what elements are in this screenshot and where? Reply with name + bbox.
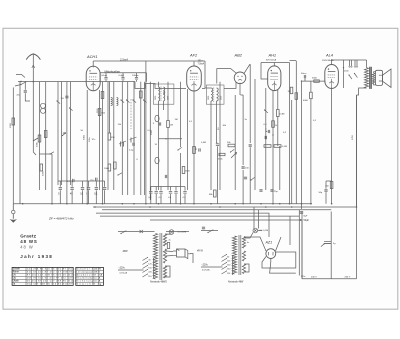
coil IFT2 primary [211, 88, 213, 101]
capacitor AF2 [199, 148, 200, 151]
svg-text:5000: 5000 [43, 170, 45, 176]
wire [71, 190, 73, 203]
wire [241, 94, 244, 96]
wire [150, 194, 152, 204]
wire [304, 78, 306, 81]
wire [184, 187, 186, 191]
switch wave [127, 100, 130, 103]
wire avc link [217, 142, 218, 144]
coil L1b [41, 108, 46, 113]
junction ah1 [272, 134, 273, 135]
wire [144, 82, 146, 195]
wire stub a1 [349, 60, 351, 67]
resistor 1000 [108, 164, 111, 171]
wire ACH1 anode [92, 61, 94, 67]
resistor AF2 cathode [193, 147, 196, 154]
selector tap 40 [143, 258, 148, 261]
wire [167, 82, 169, 121]
capacitor 0,4µF [121, 78, 124, 80]
coil transformer2 primary [232, 236, 236, 274]
resistor 0,3M [277, 110, 280, 117]
switch wave [144, 100, 147, 103]
svg-text:Gewicht: Gewicht [76, 283, 93, 286]
wire [136, 73, 138, 77]
switch wave [133, 100, 136, 103]
wire [12, 87, 14, 203]
svg-text:48 WS: 48 WS [20, 239, 37, 244]
wire [149, 82, 151, 200]
wire AZ1 left [244, 237, 266, 251]
resistor psu1 [167, 243, 169, 249]
coil osc 2 [155, 157, 159, 164]
resistor 150 [330, 182, 333, 189]
wire [343, 60, 345, 88]
wire [210, 101, 212, 190]
svg-text:Schalter 1: Schalter 1 [76, 268, 93, 271]
transformer core [370, 67, 371, 89]
junction osc [165, 138, 166, 139]
resistor 0,1M [274, 145, 281, 148]
svg-text:2000: 2000 [168, 96, 170, 100]
switch band c [70, 108, 73, 111]
switch [118, 173, 122, 175]
wire [88, 181, 90, 187]
svg-text:Netztrafo 48WS: Netztrafo 48WS [150, 281, 167, 284]
wire mittel line [100, 72, 147, 74]
wire heater [118, 231, 155, 233]
resistor 0,5M [264, 145, 271, 148]
tube AH1 [268, 66, 281, 91]
wire AF2 pin [187, 89, 189, 190]
wire [133, 82, 135, 195]
wire [59, 190, 61, 203]
svg-text:AZ1: AZ1 [265, 240, 273, 244]
junction bus2 [265, 206, 267, 208]
wire [82, 190, 84, 203]
junction 50uF [300, 219, 302, 221]
svg-text:48 W: 48 W [197, 250, 203, 253]
wire [158, 82, 160, 87]
junction bus2 [94, 206, 96, 208]
wire AZ1 out [270, 259, 296, 274]
wire [254, 79, 256, 190]
wire sec bot [374, 84, 376, 85]
wire stub b2 [356, 60, 358, 67]
wire [184, 194, 186, 204]
tube AZ1 [266, 249, 276, 259]
trimmer cap [130, 137, 137, 140]
junction bus [102, 203, 104, 205]
wire psu1 rect right [190, 254, 193, 264]
capacitor 25µ [270, 190, 273, 191]
transformer1 core [160, 233, 162, 280]
svg-text:ZF = 468/472 kHz: ZF = 468/472 kHz [48, 217, 74, 221]
wire AL4 grid [302, 80, 326, 82]
wire [167, 128, 169, 191]
capacitor 0 [87, 188, 90, 190]
wire [104, 181, 106, 187]
svg-text:8µF: 8µF [304, 216, 308, 218]
wire [45, 82, 47, 190]
resistor 1000 [12, 118, 15, 125]
resistor 1M [167, 121, 170, 128]
wire [127, 82, 129, 195]
wire heater2 [166, 231, 189, 233]
wire lamp [165, 233, 172, 235]
svg-text:92V/11mA: 92V/11mA [266, 59, 277, 62]
svg-text:Sicherung: Sicherung [76, 280, 93, 283]
wire sel2 [165, 255, 173, 258]
selector tap psu2 125 [222, 259, 227, 262]
wire AF2 cathode [193, 91, 195, 204]
wire AH1 grid [261, 63, 268, 80]
svg-text:1000: 1000 [104, 168, 110, 170]
resistor [44, 131, 47, 138]
svg-text:1W: 1W [288, 91, 291, 93]
coil transformer2 secondary c [242, 264, 245, 274]
svg-text:Leistungsauf: Leistungsauf [76, 271, 93, 274]
wire AL4 anode top [332, 59, 367, 61]
wire [170, 194, 172, 204]
selector tap 220 [143, 270, 148, 273]
svg-text:2000: 2000 [208, 96, 210, 100]
wire [88, 190, 90, 203]
capacitor 5000 [244, 177, 247, 179]
wire [279, 146, 281, 190]
svg-text:0,4µF: 0,4µF [119, 75, 125, 77]
svg-text:65 410 87 152 147 258 96 310: 65 410 87 152 147 258 96 310 [27, 281, 73, 283]
svg-text:310 65 410 87 152 147 258 96: 310 65 410 87 152 147 258 96 [27, 272, 73, 274]
wire [160, 194, 162, 204]
svg-text:Skalenlamp: Skalenlamp [76, 278, 93, 280]
potentiometer arrow volume [231, 153, 237, 159]
wire osc link [159, 138, 182, 140]
wire [57, 82, 59, 185]
wire [95, 190, 97, 203]
coil transformer1 secondary c [163, 266, 166, 278]
coil osc [155, 115, 159, 122]
svg-text:50µF: 50µF [304, 219, 310, 222]
junction bus [122, 203, 124, 205]
capacitor 0,1 mid [183, 192, 186, 194]
svg-text:3000: 3000 [151, 129, 153, 135]
selector tap 125 [143, 262, 148, 265]
svg-text:1000: 1000 [10, 122, 12, 128]
switch [321, 244, 324, 247]
wire [175, 187, 177, 191]
resistor 5000 [182, 167, 185, 174]
capacitor ah1 k [268, 130, 269, 133]
wire AL4 anode [331, 60, 333, 65]
junction bus [133, 203, 135, 205]
junction bus [193, 203, 195, 205]
svg-text:4000: 4000 [303, 100, 309, 102]
dial lamp 1 [169, 230, 174, 235]
coil transformer1 primary [153, 234, 157, 280]
wire psu1 sec stub [165, 266, 170, 277]
wire AH1 B+ link [290, 60, 297, 62]
coil output transformer primary [365, 68, 369, 88]
resistor 5000 AL4 [314, 80, 320, 82]
junction ant [33, 81, 35, 83]
junction bus [234, 203, 236, 205]
coil antenna [111, 98, 113, 106]
svg-text:≈220v: ≈220v [119, 267, 126, 270]
wire AB2 cathode [239, 83, 241, 95]
wire [217, 146, 219, 203]
resistor 500k [38, 135, 41, 142]
svg-text:100cm: 100cm [132, 75, 139, 77]
wire [234, 95, 236, 190]
wire [113, 82, 115, 190]
table tube data [12, 267, 73, 285]
resistor 500 [114, 162, 117, 169]
wire bus 6 [150, 220, 302, 279]
svg-text:48W: 48W [123, 250, 129, 253]
capacitor 0,1 [265, 136, 266, 139]
wire antenna tail [33, 148, 36, 155]
capacitor 0,1 avc [216, 144, 219, 146]
junction bus [145, 203, 147, 205]
wire AH1 bracket right [289, 63, 291, 204]
wire [155, 194, 157, 204]
capacitor 0,1 [259, 190, 262, 191]
svg-text:0,1µ: 0,1µ [129, 150, 134, 152]
selector tap psu2 110 [222, 271, 227, 274]
wire ant coupling [25, 97, 30, 101]
svg-text:50cm: 50cm [301, 73, 307, 75]
junction bus [210, 203, 212, 205]
wire sec top [374, 72, 376, 73]
svg-text:1250: 1250 [352, 134, 354, 140]
capacitor [159, 122, 160, 125]
wire AL4 cathode [331, 88, 333, 204]
capacitor 50cm [304, 75, 305, 78]
wire [121, 82, 123, 195]
IF transformer 2 box [206, 85, 224, 104]
capacitor ant 1 [24, 91, 27, 92]
coil transformer1 secondary b [163, 249, 166, 263]
junction bus [301, 203, 303, 205]
wire switch stub [16, 75, 25, 78]
junction bus [22, 203, 24, 205]
wire [140, 82, 142, 195]
capacitor 0,1 mid [159, 192, 162, 194]
switch [265, 110, 268, 113]
svg-text:Netztrafo 48W: Netztrafo 48W [228, 281, 244, 284]
wire [291, 100, 293, 204]
tuning gang link [130, 99, 132, 129]
wire AF2 anode [193, 62, 195, 67]
wire [136, 80, 138, 82]
wire AZ1 loop [262, 252, 296, 268]
wire bus gnd [13, 203, 312, 205]
wire psu2 lamp feed [244, 233, 253, 239]
svg-text:220v: 220v [301, 276, 305, 278]
wire [163, 101, 165, 110]
transformer2 core [239, 235, 241, 275]
resistor 68k [214, 190, 217, 197]
junction bus [279, 203, 281, 205]
junction bus2 [219, 206, 221, 208]
switch avc [231, 149, 235, 152]
wire [105, 80, 107, 82]
svg-text:≈220v: ≈220v [202, 264, 209, 267]
junction bus2 [356, 206, 358, 208]
junction bus [260, 203, 262, 205]
junction bus [158, 203, 160, 205]
capacitor 0,1 [133, 143, 134, 146]
svg-text:147 258 96 310 65 410 87 152: 147 258 96 310 65 410 87 152 [27, 269, 73, 271]
tube AL4 [325, 65, 339, 89]
svg-text:0,5/0,2A: 0,5/0,2A [202, 269, 210, 272]
wire caps row feed [151, 186, 185, 188]
svg-text:5000: 5000 [312, 78, 318, 80]
wire [301, 211, 303, 279]
wire [104, 190, 106, 203]
capacitor 0,5 mid [169, 192, 172, 194]
wire top bus [18, 81, 135, 83]
svg-text:152 147 258 96 310 65 410 87: 152 147 258 96 310 65 410 87 [27, 284, 73, 286]
contact [20, 81, 21, 82]
wire [301, 81, 303, 209]
wire rail down [356, 95, 358, 207]
wire [108, 82, 110, 133]
junction bus [180, 203, 182, 205]
IF transformer 1 box [153, 84, 174, 104]
svg-text:AB2: AB2 [234, 52, 243, 57]
svg-text:AL4: AL4 [325, 53, 334, 58]
capacitor C [103, 188, 106, 190]
junction anode [331, 59, 332, 60]
wire stub a2 [351, 60, 353, 67]
wire AH1 anode [273, 63, 275, 67]
wire psu2 lamp out [258, 230, 262, 232]
svg-text:1M: 1M [170, 125, 173, 127]
wire [99, 73, 101, 82]
wire bus 2 [93, 206, 357, 208]
rectifier selenium [177, 249, 186, 257]
svg-text:Anodenstr: Anodenstr [76, 274, 93, 277]
table voltages [76, 267, 104, 285]
svg-text:Schaltr: Schaltr [13, 268, 20, 271]
wire [249, 147, 251, 204]
selector tap 110 [143, 274, 148, 277]
switch antenna [21, 82, 26, 85]
wire mains in2 [201, 266, 223, 268]
wire ACH1 pin [99, 90, 101, 190]
wire [24, 93, 26, 97]
junction bus [289, 203, 291, 205]
junction bus [310, 203, 312, 205]
svg-text:250 V: 250 V [345, 277, 351, 279]
junction bus [331, 203, 333, 205]
coil IFT1 secondary [164, 87, 165, 101]
switch band [50, 152, 54, 154]
svg-text:AH1: AH1 [268, 52, 277, 57]
wire pot arm [33, 138, 38, 141]
tube AB2 [234, 72, 246, 84]
coil transformer2 secondary b [242, 251, 245, 261]
wire [107, 82, 109, 190]
wire selector spine [153, 258, 155, 278]
wire mains in1 [118, 269, 144, 271]
capacitor 0,1 mid [149, 192, 152, 194]
fuse [140, 230, 144, 233]
svg-text:0,5/0,2A: 0,5/0,2A [120, 272, 128, 275]
coil L1a [41, 103, 46, 108]
svg-text:0,1M: 0,1M [282, 146, 287, 148]
svg-text:60cm: 60cm [102, 75, 108, 77]
resistor [140, 91, 143, 98]
wire [39, 82, 41, 190]
capacitor 10 [81, 188, 84, 190]
wire heater drop b [258, 210, 260, 229]
svg-text:2,5mA: 2,5mA [120, 57, 128, 61]
svg-text:Jahr 1938: Jahr 1938 [20, 254, 52, 259]
junction bus [86, 203, 88, 205]
switch mains [121, 231, 126, 234]
svg-text:258 96 310 65 410 87 152 147: 258 96 310 65 410 87 152 147 [27, 278, 73, 280]
wire bus drop [135, 82, 186, 89]
speaker [375, 70, 382, 85]
resistor 50k [98, 109, 101, 116]
switch osc [178, 147, 182, 150]
wire bottom right [302, 278, 357, 280]
coil transformer2 secondary a [242, 237, 245, 249]
switch tone a [349, 75, 352, 79]
wire [325, 192, 327, 204]
svg-text:1k: 1k [275, 125, 277, 127]
wire IFT2 primary top [204, 61, 206, 88]
wire psu2 sec stub [244, 264, 249, 272]
wire ah1 k link [266, 128, 268, 132]
svg-text:87 152 147 258 96 310 65 410: 87 152 147 258 96 310 65 410 [27, 275, 73, 277]
selector tap psu2 150 [222, 263, 227, 266]
wire [71, 181, 73, 187]
coil [117, 98, 119, 106]
wire AB2 left horn [217, 69, 237, 84]
coil IFT2 secondary [217, 88, 219, 101]
wire [170, 187, 172, 191]
ground [13, 82, 20, 219]
wire [95, 181, 97, 187]
svg-text:Rohre: Rohre [13, 271, 20, 274]
svg-text:0,3M: 0,3M [280, 114, 285, 116]
wire AB2 cathode link [224, 82, 236, 88]
wire [180, 82, 182, 147]
wire [66, 82, 68, 204]
svg-text:50kΩ: 50kΩ [83, 134, 85, 140]
wire [277, 90, 279, 110]
junction bus [51, 203, 53, 205]
wire AH1 pin [265, 88, 267, 190]
wire [242, 170, 244, 204]
svg-text:0,5M: 0,5M [201, 142, 206, 144]
resistor 30 [101, 92, 104, 99]
junction bus [272, 203, 274, 205]
dial lamp 2 [253, 228, 258, 233]
wire [180, 153, 182, 204]
svg-text:Graetz: Graetz [20, 234, 37, 239]
capacitor 50µF block [324, 241, 331, 243]
capacitor 0,1µF [96, 178, 97, 181]
wire [155, 187, 157, 191]
switch mains2 [208, 230, 213, 233]
svg-text:ACH1: ACH1 [86, 54, 97, 59]
selector tap 150 [143, 266, 148, 269]
capacitor 100 [242, 167, 245, 168]
